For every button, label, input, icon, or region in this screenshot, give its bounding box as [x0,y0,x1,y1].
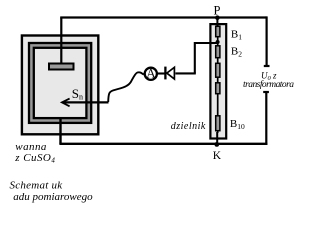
diode D (triangle, cathode left) [167,67,175,79]
ammeter A (circle) [145,68,157,80]
wire: tap horizontal from chain [195,42,218,44]
wire: probe arrow shaft Sn [63,101,109,103]
svg-text:dzielnik: dzielnik [171,121,206,132]
wire: diode to ammeter [157,72,166,74]
svg-text:P: P [214,3,221,17]
wire: tap to diode anode [175,72,195,74]
tank inner wall (gray core) [31,45,88,120]
wire: right rise from bottom bus to transformer - terminal [265,92,267,145]
node K (junction dot) [214,142,219,147]
diode cathode bar [164,67,166,80]
wire: P to divider [216,18,218,28]
divider outer box (dzielnik) [210,24,226,138]
electrode plate [49,64,74,70]
svg-text:Schemat uk: Schemat uk [10,179,64,191]
svg-text:z CuSO4: z CuSO4 [14,152,55,165]
wire: ammeter to probe (freehand squiggle) [108,72,144,102]
wire: top bus from riser to transformer corner [60,16,266,18]
wire: divider bottom lead to bus [216,132,218,145]
tank inner wall (black outline) [31,45,88,120]
resistor box B2 [216,46,220,58]
svg-text:transformatora: transformatora [243,79,294,90]
svg-text:adu pomiarowego: adu pomiarowego [13,191,93,203]
svg-text:K: K [213,150,222,162]
wire: right drop to transformer + terminal [266,16,268,66]
wire: bottom bus K [59,143,267,145]
wire: electrode riser [60,18,62,65]
wire: tank bottom drop [59,119,61,145]
terminal bar - (bottom) [263,91,269,93]
terminal bar + (top) [264,65,270,67]
tank outer wall (wanna) [22,36,98,135]
wire: divider chain center line [217,25,219,133]
svg-text:A: A [146,65,156,80]
resistor box B10 [216,116,220,131]
probe arrowhead [62,99,70,107]
node P (junction dot) [215,15,220,20]
wire: tap vertical [194,42,196,73]
resistor box B4 [216,83,220,94]
resistor box B1 [216,26,220,36]
resistor box B3 [216,63,220,77]
node tap junction between B1 and B2 [216,40,220,44]
